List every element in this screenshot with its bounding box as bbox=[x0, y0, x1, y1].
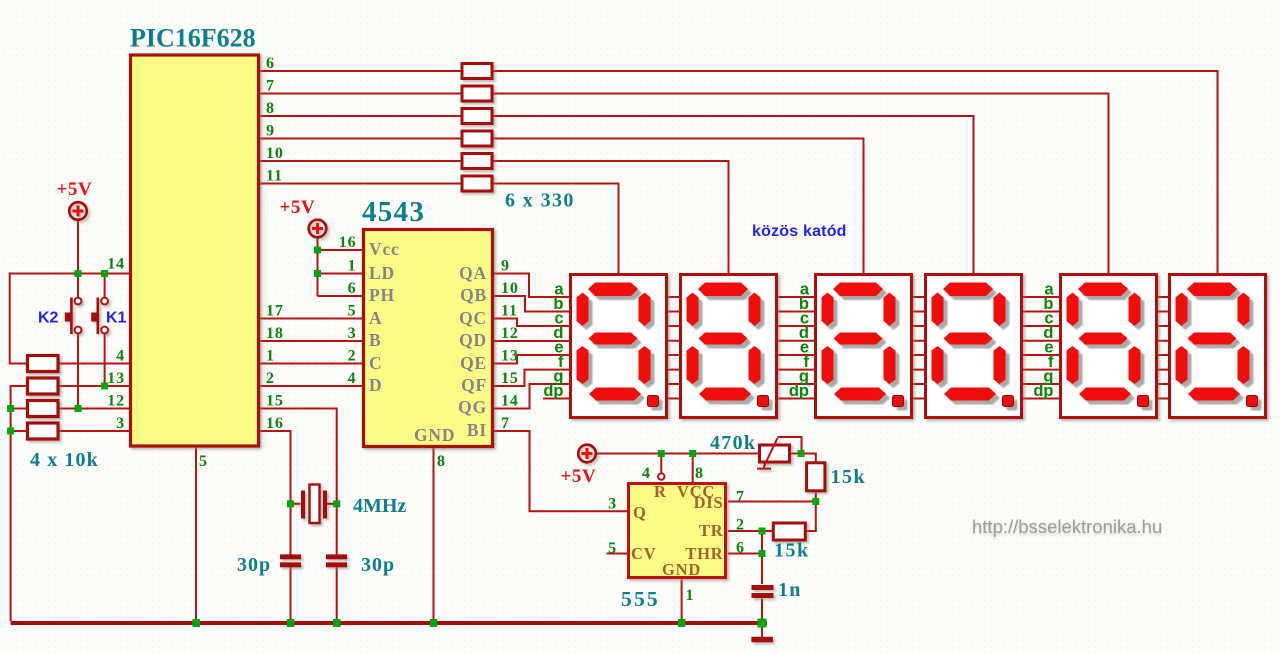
svg-text:2: 2 bbox=[736, 517, 745, 534]
junction ground bus / PIC pin5 bbox=[193, 619, 201, 627]
junction left bus / R10 bbox=[7, 428, 14, 435]
wire 470k wiper to right node bbox=[778, 437, 802, 454]
wire R8 left to ground bus bbox=[11, 386, 28, 621]
svg-text:Q: Q bbox=[633, 503, 647, 522]
svg-text:2: 2 bbox=[266, 370, 275, 387]
wire 4543 QE to segment e bbox=[494, 355, 569, 364]
svg-text:TR: TR bbox=[699, 521, 724, 540]
wire +5V to 4543 Vcc LD PH bbox=[318, 238, 363, 297]
crystal Q1 4MHz bbox=[291, 485, 337, 524]
svg-text:6: 6 bbox=[266, 55, 275, 72]
wire 555 pin8 vcc bbox=[692, 454, 694, 483]
wire PIC pin5 to ground bbox=[195, 446, 197, 621]
wire K1 top to pin14 rail bbox=[104, 274, 106, 298]
svg-text:3: 3 bbox=[116, 415, 125, 432]
svg-text:14: 14 bbox=[107, 256, 125, 273]
svg-text:4 x 10k: 4 x 10k bbox=[30, 449, 99, 471]
junction DIS / 15k node bbox=[812, 498, 819, 505]
svg-text:QE: QE bbox=[460, 353, 487, 373]
wire 555 pin4 reset bbox=[660, 454, 662, 474]
svg-text:15k: 15k bbox=[774, 540, 810, 562]
segment labels column 2 bbox=[789, 281, 810, 401]
resistor 15k horizontal bbox=[773, 523, 805, 540]
svg-text:6 x 330: 6 x 330 bbox=[505, 190, 575, 212]
wire segment bus between displays 3-4 bbox=[913, 297, 924, 399]
svg-text:9: 9 bbox=[266, 123, 275, 140]
junction left bus / R9 bbox=[7, 405, 14, 412]
wire 4543 QF to segment f bbox=[494, 370, 569, 386]
wire PIC pin18 to 4543 B bbox=[259, 340, 362, 342]
resistor R4 330 bbox=[462, 131, 492, 146]
resistor R7 10k bbox=[28, 356, 59, 372]
svg-text:http://bsselektronika.hu: http://bsselektronika.hu bbox=[972, 516, 1162, 537]
wire 4543 QB to segment b bbox=[494, 296, 569, 312]
power +5V symbol middle bbox=[309, 220, 327, 238]
display DIS6 bbox=[1170, 275, 1266, 418]
svg-text:5: 5 bbox=[608, 540, 617, 557]
power +5V symbol left bbox=[69, 202, 87, 220]
wire PIC pin2 to 4543 D bbox=[259, 385, 362, 387]
svg-text:10: 10 bbox=[266, 145, 284, 162]
svg-text:10: 10 bbox=[501, 280, 519, 297]
svg-text:dp: dp bbox=[1033, 382, 1053, 400]
svg-text:D: D bbox=[369, 375, 382, 395]
ground symbol bbox=[751, 637, 773, 643]
svg-text:12: 12 bbox=[501, 325, 519, 342]
resistor 15k vertical bbox=[807, 463, 825, 491]
svg-text:dp: dp bbox=[789, 382, 809, 400]
svg-text:17: 17 bbox=[266, 303, 284, 320]
IC PIC16F628 bbox=[131, 55, 259, 446]
svg-text:B: B bbox=[369, 330, 381, 350]
potentiometer 470k bbox=[757, 438, 790, 469]
resistor R5 330 bbox=[462, 154, 492, 169]
junction ground bus / C3 bbox=[758, 619, 767, 628]
junction ground bus / C1 bbox=[287, 619, 295, 627]
junction +5V wire / 555 pin4 bbox=[658, 450, 665, 457]
IC 4543 bbox=[364, 230, 493, 447]
junction TR node bbox=[759, 528, 766, 535]
capacitor C1 30p bbox=[280, 557, 301, 565]
svg-text:3: 3 bbox=[608, 496, 617, 513]
resistor R6 330 bbox=[462, 176, 492, 191]
svg-text:1: 1 bbox=[686, 587, 695, 604]
wire segment bus between displays 1-2 bbox=[668, 297, 679, 399]
junction +5V wire / 555 pin8 bbox=[689, 450, 696, 457]
junction ground bus / 555 pin1 bbox=[678, 619, 686, 627]
svg-text:GND: GND bbox=[414, 425, 455, 445]
svg-text:13: 13 bbox=[501, 348, 519, 365]
svg-text:dp: dp bbox=[543, 382, 563, 400]
wire PIC pin15 to crystal right bbox=[259, 409, 337, 622]
svg-text:QC: QC bbox=[459, 308, 487, 328]
segment labels column 3 bbox=[1033, 281, 1054, 401]
wire R8 to PIC pin13 bbox=[58, 385, 131, 387]
svg-text:K2: K2 bbox=[38, 310, 59, 327]
svg-text:1: 1 bbox=[348, 258, 357, 275]
svg-text:30p: 30p bbox=[237, 554, 271, 576]
wire 4543 BI to 555 Q bbox=[494, 431, 627, 511]
svg-text:A: A bbox=[369, 308, 382, 328]
svg-text:QB: QB bbox=[460, 285, 487, 305]
junction ground bus / C2 bbox=[333, 619, 341, 627]
junction K1 bottom (pin13 wire) bbox=[101, 383, 108, 390]
wire PIC pin1 to 4543 C bbox=[259, 363, 362, 365]
svg-text:6: 6 bbox=[348, 280, 357, 297]
svg-text:14: 14 bbox=[501, 393, 519, 410]
svg-text:QA: QA bbox=[459, 263, 487, 283]
junction +5V rail / K2 top (pin14 wire) bbox=[75, 270, 82, 277]
wire PIC pin6 to display 6 top bbox=[259, 71, 1218, 273]
IC 555 bbox=[629, 484, 726, 578]
svg-text:közös katód: közös katód bbox=[752, 223, 847, 240]
resistor R9 10k bbox=[28, 401, 59, 417]
svg-text:8: 8 bbox=[437, 453, 446, 470]
svg-text:555: 555 bbox=[621, 587, 660, 611]
svg-text:13: 13 bbox=[107, 370, 125, 387]
resistor R10 10k bbox=[28, 423, 59, 439]
junction crystal left / pin16 line bbox=[287, 500, 294, 507]
svg-text:PIC16F628: PIC16F628 bbox=[130, 24, 256, 53]
wire +5V down through K2 bbox=[77, 220, 79, 298]
ground bus bbox=[11, 621, 767, 625]
junction K1 top (pin14 wire) bbox=[101, 270, 108, 277]
wire 555 TR to 15k bbox=[728, 530, 773, 532]
wire +5V rail to PIC pin14 bbox=[10, 274, 131, 364]
svg-text:470k: 470k bbox=[710, 432, 756, 454]
resistor R2 330 bbox=[462, 86, 492, 101]
svg-text:8: 8 bbox=[266, 100, 275, 117]
svg-text:7: 7 bbox=[266, 78, 275, 95]
svg-text:30p: 30p bbox=[361, 554, 395, 576]
svg-text:3: 3 bbox=[348, 325, 357, 342]
wire segment bus displays 4-5 bbox=[1023, 297, 1059, 399]
svg-text:15: 15 bbox=[501, 370, 519, 387]
display DIS2 bbox=[681, 275, 777, 418]
svg-text:PH: PH bbox=[369, 285, 395, 305]
svg-text:+5V: +5V bbox=[57, 179, 93, 200]
wire segment bus between displays 5-6 bbox=[1158, 297, 1168, 399]
junction +5V / 4543 LD bbox=[314, 270, 321, 277]
svg-text:4MHz: 4MHz bbox=[353, 495, 406, 517]
svg-text:BI: BI bbox=[467, 420, 487, 440]
wire 555 CV stub bbox=[607, 553, 627, 555]
wire K1 bottom to pin13 row bbox=[104, 334, 106, 387]
svg-text:CV: CV bbox=[631, 544, 656, 563]
svg-text:16: 16 bbox=[339, 234, 357, 251]
junction crystal right / pin15 line bbox=[333, 500, 340, 507]
wire PIC pin9 to display 3 top bbox=[259, 139, 864, 274]
svg-text:11: 11 bbox=[501, 303, 518, 320]
svg-text:4543: 4543 bbox=[362, 196, 425, 228]
segment labels column 1 bbox=[543, 281, 564, 401]
svg-text:QD: QD bbox=[459, 330, 487, 350]
wire K2 bottom to pin12 row bbox=[77, 334, 79, 409]
wire 4543 QG to segment g bbox=[494, 384, 569, 409]
svg-text:11: 11 bbox=[266, 168, 283, 185]
svg-text:6: 6 bbox=[736, 540, 745, 557]
svg-text:Vcc: Vcc bbox=[369, 239, 400, 259]
svg-text:8: 8 bbox=[695, 465, 704, 482]
display DIS1 bbox=[571, 275, 667, 418]
junction K2 bottom (pin12 wire) bbox=[75, 405, 82, 412]
wire 4543 pin8 GND bbox=[433, 448, 435, 621]
display DIS5 bbox=[1061, 275, 1157, 418]
svg-text:4: 4 bbox=[348, 370, 357, 387]
wire PIC pin11 to display 1 top bbox=[259, 184, 619, 274]
svg-text:R: R bbox=[654, 482, 667, 501]
wire 4543 QA to segment a bbox=[494, 274, 569, 298]
svg-text:9: 9 bbox=[501, 258, 510, 275]
display DIS3 bbox=[816, 275, 912, 418]
resistor R1 330 bbox=[462, 64, 492, 79]
junction 470k wiper node bbox=[798, 450, 805, 457]
svg-text:7: 7 bbox=[501, 415, 510, 432]
resistor R8 10k bbox=[28, 378, 59, 394]
svg-text:7: 7 bbox=[736, 489, 745, 506]
svg-text:4: 4 bbox=[642, 465, 651, 482]
junction ground bus / 4543 pin8 bbox=[430, 619, 438, 627]
capacitor C2 30p bbox=[326, 557, 347, 565]
wire 555 DIS to 15k node bbox=[728, 491, 816, 531]
resistor R3 330 bbox=[462, 109, 492, 124]
svg-text:DIS: DIS bbox=[694, 493, 724, 512]
wire PIC pin17 to 4543 A bbox=[259, 318, 362, 320]
wire dp stub display1 bbox=[543, 398, 569, 400]
display DIS4 bbox=[926, 275, 1022, 418]
svg-text:4: 4 bbox=[116, 348, 125, 365]
svg-text:C: C bbox=[369, 353, 382, 373]
svg-text:5: 5 bbox=[199, 453, 208, 470]
svg-text:+5V: +5V bbox=[561, 466, 597, 487]
junction +5V / 4543 Vcc bbox=[314, 247, 321, 254]
pushbutton K1 bbox=[91, 298, 108, 335]
wire R7 to PIC pin4 bbox=[58, 363, 131, 365]
svg-text:1: 1 bbox=[266, 348, 275, 365]
pin circle 555 reset bbox=[658, 473, 664, 479]
wire PIC pin16 to crystal left bbox=[259, 431, 291, 621]
svg-text:1n: 1n bbox=[778, 579, 802, 601]
wire 555 THR to TR node and 1n bbox=[728, 531, 762, 637]
svg-text:16: 16 bbox=[266, 415, 284, 432]
capacitor C3 1n bbox=[752, 588, 774, 596]
wire R10 row pin3 bbox=[11, 430, 131, 432]
wire segment bus displays 2-3 bbox=[778, 297, 814, 399]
svg-text:K1: K1 bbox=[106, 310, 127, 327]
svg-text:18: 18 bbox=[266, 325, 284, 342]
svg-text:15k: 15k bbox=[831, 466, 867, 488]
svg-text:12: 12 bbox=[107, 393, 125, 410]
wire +5V rail to 555 and 470k bbox=[597, 454, 816, 463]
wire PIC pin10 to display 2 top bbox=[259, 161, 729, 273]
wire 555 pin1 GND to bus bbox=[681, 580, 683, 622]
svg-text:GND: GND bbox=[662, 560, 701, 579]
svg-text:2: 2 bbox=[348, 348, 357, 365]
wire 4543 QC to segment c bbox=[494, 319, 569, 327]
power +5V symbol 555 bbox=[578, 445, 596, 463]
pushbutton K2 bbox=[65, 298, 82, 335]
wire 4543 QD to segment d bbox=[494, 340, 569, 342]
svg-text:+5V: +5V bbox=[280, 197, 316, 218]
svg-text:5: 5 bbox=[348, 303, 357, 320]
svg-text:QF: QF bbox=[461, 375, 487, 395]
svg-text:QG: QG bbox=[458, 397, 487, 417]
svg-text:15: 15 bbox=[266, 393, 284, 410]
wire R9 row pin12 bbox=[11, 408, 131, 410]
svg-text:LD: LD bbox=[369, 263, 395, 283]
wire PIC pin7 to display 5 top bbox=[259, 94, 1109, 274]
junction THR node bbox=[759, 550, 766, 557]
wire PIC pin8 to display 4 top bbox=[259, 116, 974, 273]
